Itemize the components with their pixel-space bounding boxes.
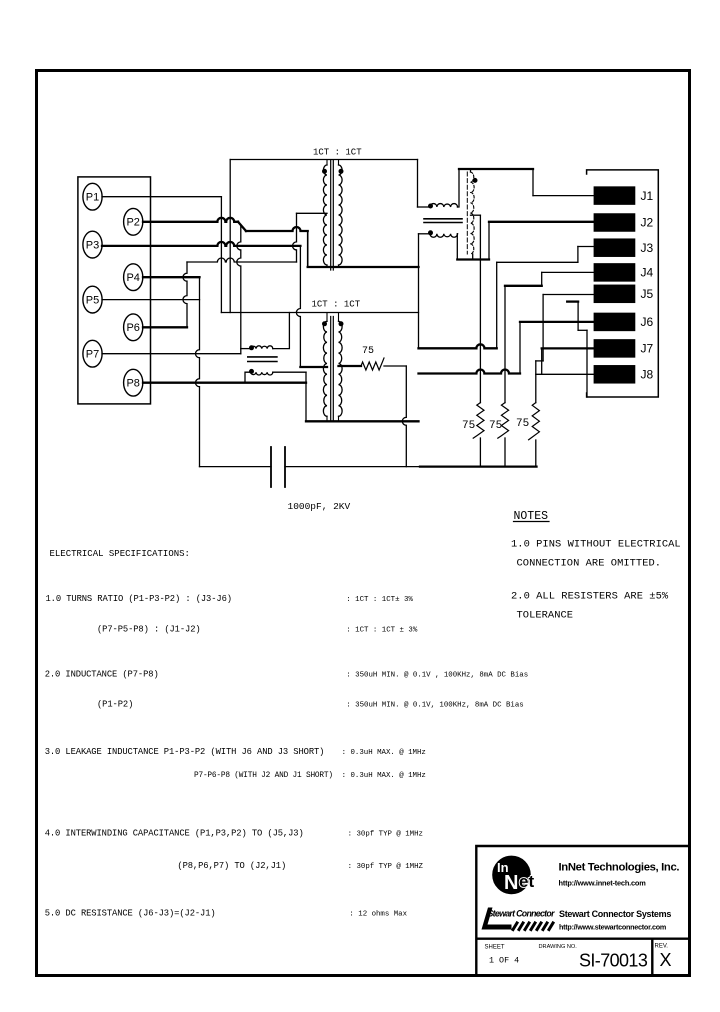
wire P7	[102, 353, 241, 355]
wire J4 horizontal	[505, 285, 542, 287]
transformer T1 primary winding	[323, 165, 327, 265]
wire J5 drop	[542, 295, 544, 361]
svg-text:http://www.stewartconnector.co: http://www.stewartconnector.com	[559, 923, 666, 932]
resistor R2 lead	[504, 438, 506, 467]
svg-text:1.0 TURNS RATIO (P1-P3-P2) : (: 1.0 TURNS RATIO (P1-P3-P2) : (J3-J6)	[46, 594, 232, 604]
svg-text:(P8,P6,P7) TO (J2,J1): (P8,P6,P7) TO (J2,J1)	[177, 861, 286, 871]
wire J5 jog	[536, 360, 543, 362]
wire T2 left center tap	[300, 366, 327, 368]
wire T1 tap riser	[293, 213, 297, 262]
svg-text:et: et	[519, 872, 534, 891]
pin P3	[83, 231, 102, 258]
svg-text:: 1CT : 1CT ± 3%: : 1CT : 1CT ± 3%	[346, 627, 418, 635]
svg-text:P4: P4	[126, 272, 139, 284]
svg-text:SHEET: SHEET	[485, 945, 505, 951]
wire P3-T2 tap vertical	[296, 246, 300, 367]
svg-text:J8: J8	[641, 368, 654, 382]
svg-text:: 350uH MIN. @ 0.1V, 100KHz, 8: : 350uH MIN. @ 0.1V, 100KHz, 8mA DC Bias	[346, 702, 523, 710]
svg-text:75: 75	[489, 420, 502, 432]
shield mid tap	[471, 214, 481, 216]
svg-text:: 1CT : 1CT± 3%: : 1CT : 1CT± 3%	[346, 596, 413, 604]
contact J7 pad	[594, 340, 635, 358]
wire T1top drop	[229, 160, 231, 313]
resistor R4 75	[361, 358, 384, 370]
wire P2-T1 bottom	[246, 227, 308, 231]
shield phase dot	[473, 178, 477, 182]
svg-text:DRAWING NO.: DRAWING NO.	[539, 944, 578, 950]
wire T1-L1 drop	[417, 160, 419, 208]
transformer T2 phase dots	[323, 322, 327, 326]
inductor L1 bottom coil	[430, 234, 458, 237]
svg-text:: 0.3uH MAX. @ 1MHz: : 0.3uH MAX. @ 1MHz	[342, 772, 426, 780]
pin P5	[83, 286, 102, 313]
wire R4 drop to bus	[402, 366, 406, 467]
wire P2 drop	[307, 231, 309, 267]
wire junction column	[418, 234, 420, 348]
resistor R1 75	[473, 403, 484, 439]
pin P6	[124, 314, 143, 341]
wire P6 riser	[183, 262, 187, 327]
pin P8	[124, 369, 143, 396]
wire P8-T2 bottom riser	[305, 372, 307, 421]
capacitor C1 plates	[271, 447, 285, 487]
wire P5	[102, 299, 200, 301]
wire P6	[143, 326, 187, 328]
svg-text:CONNECTION ARE OMITTED.: CONNECTION ARE OMITTED.	[517, 558, 662, 570]
wire T1 left center tap	[297, 212, 328, 214]
pin P1	[83, 183, 102, 210]
contact J2 pad	[594, 214, 635, 232]
wire T2-J6 horizontal	[419, 370, 521, 374]
wire shield tap down to R1	[479, 215, 481, 402]
transformer T1 secondary winding	[339, 165, 343, 265]
wire node P1-T2top vertical	[220, 197, 222, 313]
svg-text:: 12 ohms Max: : 12 ohms Max	[349, 911, 407, 919]
contact J6 pad	[594, 313, 635, 331]
wire T2 top	[221, 312, 418, 314]
wire cap left	[200, 466, 272, 468]
svg-text:P7: P7	[86, 349, 99, 361]
wire row3	[187, 258, 297, 262]
pin P4	[124, 264, 143, 291]
wire R4 right	[384, 365, 406, 367]
inductor L1 top coil	[430, 204, 458, 207]
wire J2 riser	[488, 222, 490, 260]
wire R2 drop	[504, 286, 506, 403]
svg-text:J7: J7	[641, 342, 654, 356]
svg-text:: 30pf TYP @ 1MHZ: : 30pf TYP @ 1MHZ	[348, 863, 424, 871]
wire bottom tie	[457, 258, 489, 260]
svg-text:5.0 DC RESISTANCE (J6-J3)=(J2-: 5.0 DC RESISTANCE (J6-J3)=(J2-J1)	[45, 909, 216, 919]
wire L1 bottomright drop	[456, 234, 458, 260]
svg-text:J4: J4	[641, 266, 654, 280]
wire stub fragment	[567, 300, 578, 302]
wire L2 bottom-right lead	[273, 371, 306, 373]
wire T2 tap right	[339, 365, 362, 367]
inductor L1 core	[424, 219, 462, 223]
transformer T1 phase dots	[323, 169, 327, 173]
inductor L1 bottom dot	[429, 231, 433, 235]
wire J3 jog	[577, 247, 579, 263]
wire L2 bottom-left lead	[245, 372, 251, 383]
contact J1 pad	[594, 187, 635, 205]
wire J6	[520, 321, 594, 323]
transformer T2 primary winding	[323, 321, 327, 416]
svg-text:TOLERANCE: TOLERANCE	[517, 610, 574, 622]
svg-text:P7-P6-P8 (WITH J2 AND J1 SHORT: P7-P6-P8 (WITH J2 AND J1 SHORT)	[194, 772, 333, 780]
wire J2	[489, 221, 594, 223]
wire J1 drop	[532, 169, 534, 196]
svg-text:75: 75	[516, 418, 529, 430]
resistor R1 lead	[479, 438, 481, 467]
svg-text:75: 75	[362, 346, 374, 357]
logo Stewart hatch	[513, 923, 553, 930]
wire J4	[542, 271, 594, 273]
svg-text:J1: J1	[641, 189, 654, 203]
svg-text:75: 75	[462, 420, 475, 432]
transformer T2 bottom stubs	[327, 416, 339, 421]
wire T2 bottom	[306, 420, 419, 422]
wire L1 topright riser	[458, 169, 460, 207]
wire P2	[143, 218, 238, 222]
svg-text:J3: J3	[641, 241, 654, 255]
wire stub drop	[577, 302, 579, 331]
svg-text:1 OF 4: 1 OF 4	[489, 956, 519, 966]
wire L1 top-left lead	[418, 206, 431, 208]
svg-text:X: X	[660, 950, 672, 970]
wire J6 riser	[519, 322, 521, 374]
svg-text:3.0 LEAKAGE INDUCTANCE P1-P3-P: 3.0 LEAKAGE INDUCTANCE P1-P3-P2 (WITH J6…	[45, 747, 325, 757]
svg-text:P1: P1	[86, 192, 99, 204]
svg-text:J2: J2	[641, 216, 654, 230]
svg-text:1CT : 1CT: 1CT : 1CT	[313, 148, 362, 158]
inductor L2 bottom dot	[250, 369, 254, 373]
wire L2 top-right lead	[273, 313, 290, 349]
svg-text:N: N	[504, 872, 518, 894]
resistor R3 lead	[535, 440, 537, 467]
wire stub down	[586, 330, 588, 397]
contact J8 pad	[594, 366, 635, 384]
svg-text:P6: P6	[126, 322, 139, 334]
inductor L1 top dot	[429, 204, 433, 208]
wire J3 riser	[496, 262, 498, 348]
svg-text:1000pF, 2KV: 1000pF, 2KV	[288, 501, 351, 512]
wire J3 mid	[497, 261, 578, 263]
svg-text:REV.: REV.	[655, 944, 669, 950]
contact J3 pad	[594, 239, 635, 257]
wire T1 top	[230, 159, 417, 161]
wire bus thin	[285, 466, 420, 468]
wire P4	[143, 276, 200, 278]
resistor R2 75	[498, 403, 509, 439]
contact J4 pad	[594, 264, 635, 282]
shield bottom tie	[472, 254, 474, 260]
svg-text:2.0 INDUCTANCE (P7-P8): 2.0 INDUCTANCE (P7-P8)	[45, 670, 159, 680]
title block frame	[476, 846, 689, 976]
svg-text:P5: P5	[86, 294, 99, 306]
wire P4-cap vertical	[196, 277, 200, 466]
svg-text:1CT : 1CT: 1CT : 1CT	[312, 300, 361, 310]
svg-text:Stewart Connector: Stewart Connector	[488, 909, 556, 919]
svg-text:P3: P3	[86, 239, 99, 251]
wire R3 drop	[535, 361, 537, 403]
svg-text:J5: J5	[641, 287, 654, 301]
logo Stewart swoosh	[482, 908, 512, 930]
svg-text:P8: P8	[126, 378, 139, 390]
inductor L2 top dot	[250, 346, 254, 350]
wire J8	[536, 373, 594, 375]
transformer T1 bottom stubs	[327, 265, 339, 267]
wire J7	[542, 347, 594, 349]
pin P2	[124, 208, 143, 235]
svg-text:1.0 PINS WITHOUT ELECTRICAL: 1.0 PINS WITHOUT ELECTRICAL	[511, 539, 681, 551]
wire T1 bottom	[308, 266, 419, 268]
resistor R3 75	[529, 403, 540, 440]
wire J4 riser	[541, 272, 543, 285]
svg-text:J6: J6	[641, 315, 654, 329]
wire P2 jog	[238, 222, 246, 231]
inductor L2 core	[248, 357, 277, 362]
wire J3	[578, 246, 594, 248]
svg-text:2.0 ALL RESISTERS ARE ±5%: 2.0 ALL RESISTERS ARE ±5%	[511, 591, 669, 603]
wire P3	[102, 242, 300, 246]
svg-text:Stewart Connector Systems: Stewart Connector Systems	[559, 909, 671, 919]
svg-text:(P7-P5-P8) : (J1-J2): (P7-P5-P8) : (J1-J2)	[97, 625, 201, 635]
wire stub jog	[578, 329, 587, 331]
wire T2-J3 horizontal	[419, 344, 497, 348]
svg-text:: 0.3uH MAX. @ 1MHz: : 0.3uH MAX. @ 1MHz	[342, 749, 426, 757]
connector P-box	[78, 177, 151, 404]
svg-text:SI-70013: SI-70013	[579, 951, 648, 971]
wire L2 top-left lead	[241, 348, 251, 350]
transformer T2 top stubs	[327, 313, 339, 322]
transformer T2 secondary winding	[339, 321, 343, 416]
wire P1	[102, 196, 221, 198]
wire P8	[143, 382, 306, 384]
wire J1	[533, 195, 594, 197]
svg-text:4.0 INTERWINDING CAPACITANCE (: 4.0 INTERWINDING CAPACITANCE (P1,P3,P2) …	[45, 829, 304, 839]
transformer T2 core	[331, 317, 334, 422]
inductor L2 top coil	[251, 346, 273, 349]
svg-text:: 30pf TYP @ 1MHz: : 30pf TYP @ 1MHz	[348, 831, 423, 839]
contact J5 pad	[594, 285, 635, 303]
svg-text:: 350uH MIN. @ 0.1V , 100KHz,: : 350uH MIN. @ 0.1V , 100KHz, 8mA DC Bia…	[346, 672, 528, 680]
transformer T1 top stubs	[327, 160, 339, 166]
transformer T1 core	[331, 160, 334, 270]
wire bus thick	[420, 465, 537, 467]
shield top tie	[470, 169, 472, 172]
wire node B vertical	[237, 226, 241, 354]
svg-text:InNet Technologies, Inc.: InNet Technologies, Inc.	[559, 862, 680, 874]
wire J7 drop	[541, 348, 543, 374]
inductor L2 bottom coil	[251, 372, 273, 375]
shield winding (dashed)	[471, 172, 475, 254]
logo InNet circle	[493, 856, 531, 894]
wire J5	[543, 294, 594, 296]
svg-text:ELECTRICAL SPECIFICATIONS:: ELECTRICAL SPECIFICATIONS:	[50, 549, 190, 559]
pin P7	[83, 340, 102, 367]
svg-text:(P1-P2): (P1-P2)	[97, 700, 133, 710]
wire H2 to J1	[459, 168, 533, 170]
svg-text:http://www.innet-tech.com: http://www.innet-tech.com	[559, 879, 647, 888]
svg-text:P2: P2	[126, 217, 139, 229]
wire L1 bottom-left lead	[419, 233, 431, 235]
connector J-box outline	[587, 170, 659, 397]
